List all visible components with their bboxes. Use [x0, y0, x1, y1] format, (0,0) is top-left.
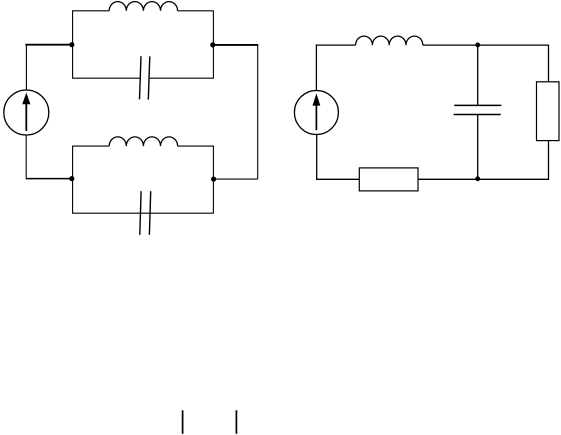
wire top segment before L3: [316, 44, 356, 46]
node A junction dot: [69, 42, 74, 47]
wire right edge upper: [548, 45, 550, 82]
capacitor C1: [140, 56, 150, 99]
wire top-right thick: [213, 44, 258, 46]
wire source2 top vertical: [315, 45, 317, 90]
wire right connector horizontal: [214, 178, 258, 180]
wire tank2 right edge: [212, 146, 214, 213]
wire bottom-left horizontal: [26, 178, 72, 180]
wire right connector vertical: [257, 45, 259, 179]
resistor R1: [537, 82, 560, 141]
wire top segment after L3: [423, 44, 549, 46]
wire tank2 bottom: [72, 212, 214, 214]
wire bottom mark left: [182, 410, 184, 434]
node C junction dot: [211, 177, 216, 182]
wire right edge lower: [548, 141, 550, 180]
wire tank1 bottom-left segment: [72, 77, 140, 79]
wire tank1 bottom-right segment: [150, 77, 214, 79]
capacitor C2: [140, 191, 151, 235]
wire tank1 left edge: [72, 11, 74, 78]
wire source bottom vertical: [25, 135, 27, 179]
wire bottom mark right: [235, 410, 237, 434]
wire source top vertical: [25, 45, 27, 90]
node E junction dot: [475, 43, 480, 48]
wire tank2 top-left segment: [72, 145, 109, 147]
wire tank2 left edge: [72, 146, 74, 213]
inductor L1: [109, 2, 177, 11]
resistor R2: [359, 168, 418, 191]
node B junction dot: [210, 42, 215, 47]
wire tank1 right edge: [212, 11, 214, 78]
wire capacitor branch upper: [477, 45, 479, 106]
wire bottom segment after R2: [418, 178, 549, 180]
node D junction dot: [69, 176, 74, 181]
current source I1: [4, 90, 49, 135]
wire tank1 top-right segment: [178, 10, 214, 12]
wire source2 bottom vertical: [316, 135, 318, 180]
capacitor C3: [454, 105, 502, 114]
current source I2: [294, 91, 338, 135]
wire tank1 top-left segment: [72, 10, 109, 12]
wire bottom segment before R2: [316, 178, 359, 180]
wire capacitor branch lower: [477, 115, 479, 180]
inductor L3: [356, 36, 423, 45]
wire tank2 top-right segment: [178, 145, 214, 147]
inductor L2: [109, 137, 177, 146]
wire top-left thick: [25, 44, 71, 46]
node F junction dot: [475, 176, 480, 181]
